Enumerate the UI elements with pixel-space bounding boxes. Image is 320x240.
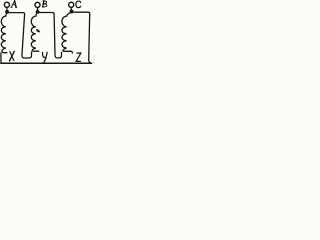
label C <box>76 1 81 8</box>
label B <box>43 1 44 7</box>
wire from node B to bottom of winding C-Z <box>38 13 62 58</box>
wire B lead <box>37 8 39 11</box>
wire A lead <box>6 7 8 10</box>
winding C-Z coil <box>62 12 72 54</box>
ink speck artifact <box>36 29 40 33</box>
wire from node C down right side into bottom rail <box>72 12 92 63</box>
label y <box>43 53 46 58</box>
terminal A <box>4 2 9 7</box>
winding A-X coil <box>1 12 7 53</box>
wire rail left riser to node X <box>0 53 2 63</box>
winding B-Y coil <box>31 12 39 51</box>
node B junction dot <box>36 10 40 14</box>
node A junction dot <box>5 10 9 14</box>
label z <box>76 53 81 61</box>
bottom rail wire (from C side around to X) <box>1 62 92 64</box>
terminal B <box>35 2 40 7</box>
wire C lead <box>70 7 72 9</box>
wire from node A to bottom of winding B-Y <box>7 13 31 58</box>
label A <box>11 1 14 7</box>
node C junction dot <box>70 10 74 14</box>
faint scan specks right edge <box>93 56 95 63</box>
terminal C <box>69 2 74 7</box>
label x <box>10 51 15 61</box>
